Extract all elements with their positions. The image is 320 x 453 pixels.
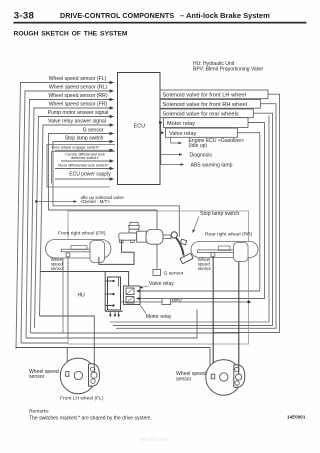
svg-text:detector switch*: detector switch* [71, 155, 100, 160]
svg-text:Diagnosis: Diagnosis [190, 152, 213, 158]
idle up solenoid valve arrow [35, 195, 124, 204]
svg-text:Wheel speed sensor (FL): Wheel speed sensor (FL) [49, 76, 107, 82]
wire: solenoid RH to HU [116, 104, 276, 329]
front LH wheel FL drawing [60, 358, 99, 394]
ECU U1 box [118, 73, 161, 185]
svg-text:HU: HU [78, 292, 86, 298]
svg-text:Valve relay answer signal: Valve relay answer signal [48, 119, 106, 125]
front right wheel FR capsule [46, 240, 112, 263]
wire: wheel speed sensor FR input [31, 108, 114, 333]
wire: master cylinder to HU stair [40, 240, 134, 311]
svg-text:G sensor: G sensor [164, 271, 184, 277]
solenoid valve front LH box [160, 90, 268, 99]
wire: rear differential lock switch [55, 168, 114, 170]
motor relay label (center) [140, 305, 172, 320]
rear wheel speed sensor label [176, 371, 206, 382]
master cylinder and booster [119, 222, 172, 244]
svg-text:3-38: 3-38 [14, 11, 35, 22]
svg-text:sensor: sensor [176, 376, 192, 382]
BPV box [121, 298, 252, 305]
wire: stop lamp switch input [53, 142, 179, 238]
HU pump block [78, 277, 121, 310]
motor relay box [164, 118, 249, 128]
wire: FL caliper hose overlay [93, 363, 95, 372]
wire: solenoid rear to HU [113, 113, 273, 325]
wire: ECU to valve relay [160, 132, 164, 134]
svg-text:14E0001: 14E0001 [287, 415, 306, 420]
switch group box [47, 145, 115, 188]
svg-text:Pump motor answer signal: Pump motor answer signal [48, 110, 109, 116]
wire: wheel speed sensor trunk [16, 348, 211, 377]
svg-text:<Diesel - M/T>: <Diesel - M/T> [81, 199, 111, 204]
svg-text:ABS warning lamp: ABS warning lamp [191, 162, 233, 168]
svg-text:Free wheel engage switch*: Free wheel engage switch* [51, 144, 99, 149]
svg-text:Rear right wheel (RR): Rear right wheel (RR) [205, 231, 253, 237]
wire: centre differential lock detector switch [61, 160, 114, 162]
wire: motor relay feed [137, 123, 265, 299]
header rule [14, 22, 307, 24]
FR wheel speed sensor label [51, 257, 65, 271]
wire: ECU to motor relay [160, 122, 162, 124]
wire: RR caliper down to rear wheel [238, 262, 240, 375]
svg-text:Front right wheel (FR): Front right wheel (FR) [58, 231, 106, 237]
wire: valve relay feed [137, 133, 260, 291]
remarks note [29, 409, 152, 422]
solenoid valve rear box [160, 109, 253, 118]
left input labels [48, 76, 109, 141]
RR wheel speed sensor label [198, 257, 212, 271]
svg-text:G sensor: G sensor [83, 128, 104, 134]
svg-text:ROUGH SKETCH OF THE SYSTEM: ROUGH SKETCH OF THE SYSTEM [14, 31, 128, 38]
svg-text:Motor relay: Motor relay [146, 314, 172, 320]
svg-text:ECU: ECU [134, 124, 146, 130]
svg-text:Wheel speed sensor (RR): Wheel speed sensor (RR) [48, 93, 107, 99]
stop lamp switch at pedal [181, 239, 187, 244]
wire: solenoid LH to HU [213, 94, 280, 332]
svg-text:The switches marked * are shar: The switches marked * are shared by the … [29, 416, 152, 422]
switch group inner box [52, 152, 116, 184]
svg-text:sensor: sensor [51, 266, 65, 271]
svg-text:Stop lamp switch: Stop lamp switch [200, 211, 239, 217]
svg-text:sensor: sensor [198, 266, 212, 271]
svg-text:Wheel speed sensor (RL): Wheel speed sensor (RL) [49, 85, 108, 91]
svg-text:BPV: Blend Proportioning Valve: BPV: Blend Proportioning Valve [193, 67, 263, 73]
svg-text:Motor relay: Motor relay [167, 121, 195, 127]
wire: G sensor input [49, 134, 158, 270]
wire: ABS warning lamp output [161, 123, 233, 169]
rear left wheel drawing [206, 360, 245, 396]
stop lamp switch label [193, 211, 240, 233]
rear right wheel RR capsule [191, 242, 258, 262]
wire: FR caliper down [62, 258, 64, 333]
svg-text:Valve relay: Valve relay [169, 131, 196, 137]
svg-text:Solenoid valve for rear wheels: Solenoid valve for rear wheels [163, 112, 239, 118]
wire: bus to RR sensor [31, 332, 239, 334]
svg-text:Stop lamp switch: Stop lamp switch [65, 135, 104, 141]
wire: diagnosis output [161, 152, 213, 158]
svg-text:Solenoid valve for front RH wh: Solenoid valve for front RH wheel [163, 102, 247, 108]
svg-text:Remarks: Remarks [29, 409, 49, 415]
svg-text:Front LH wheel (FL): Front LH wheel (FL) [60, 396, 104, 402]
wire: bus lower 3 [21, 342, 68, 344]
wire: spare solenoid return [110, 116, 269, 323]
svg-text:– Anti-lock Brake System: – Anti-lock Brake System [180, 11, 270, 20]
page header title [14, 11, 270, 22]
G sensor box [153, 270, 184, 277]
wire: free wheel engage switch [55, 149, 114, 151]
svg-text:http://txp.me/: http://txp.me/ [140, 437, 170, 443]
svg-text:DRIVE-CONTROL COMPONENTS: DRIVE-CONTROL COMPONENTS [60, 12, 174, 20]
wire: pump motor answer signal [35, 117, 114, 329]
brake pedal [171, 232, 193, 264]
wire: ECU power supply [55, 178, 114, 180]
svg-text:sensor: sensor [29, 374, 45, 380]
wire: engine ECU idle up output [171, 137, 244, 149]
svg-text:Wheel speed sensor (FR): Wheel speed sensor (FR) [49, 102, 108, 108]
wire: HU to FL caliper [40, 316, 95, 372]
legend HU / BPV [193, 61, 263, 73]
wire: wheel speed sensor RL input [21, 91, 114, 343]
svg-text:BPV: BPV [172, 298, 183, 304]
wire: bus lower 2 [26, 310, 197, 339]
relay box assembly [124, 286, 141, 305]
wire: valve relay answer signal [40, 125, 114, 316]
central assembly enclosure box [68, 211, 249, 344]
wire: wheel speed sensor FL input [16, 83, 114, 349]
solenoid valve front RH box [160, 100, 261, 109]
HU outlet arrows [106, 310, 122, 315]
svg-text:Rear differential lock switch*: Rear differential lock switch* [58, 163, 109, 168]
wire: FR sensor down [67, 257, 69, 338]
svg-text:ECU power supply: ECU power supply [69, 171, 111, 177]
wire: FL sensor drop [66, 348, 68, 372]
wire: RR sensor down to rear wheel [212, 257, 214, 374]
svg-text:Valve relay: Valve relay [149, 281, 174, 287]
FL wheel speed sensor label [29, 369, 59, 380]
wire: wheel speed sensor RR input [26, 100, 114, 339]
svg-text:(Idle up): (Idle up) [189, 143, 208, 149]
valve relay label (center) [140, 281, 175, 288]
wire: RL caliper hose overlay [238, 365, 240, 375]
svg-text:Solenoid valve for front LH wh: Solenoid valve for front LH wheel [163, 93, 246, 99]
valve relay box [166, 128, 238, 137]
